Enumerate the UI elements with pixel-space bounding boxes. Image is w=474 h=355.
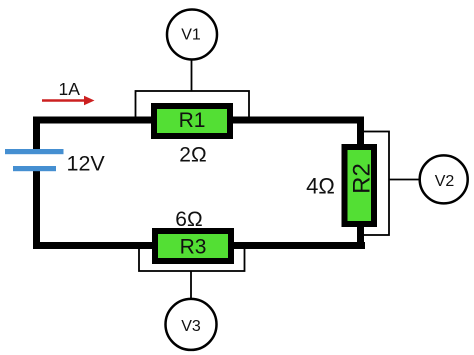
svg-text:6Ω: 6Ω	[175, 208, 202, 231]
battery B1 negative plate	[13, 166, 56, 171]
measurement bracket for R2	[361, 132, 390, 236]
measurement bracket for R3	[139, 246, 245, 271]
voltmeter V3 lead	[190, 271, 192, 299]
voltmeter V2	[420, 155, 468, 203]
svg-text:4Ω: 4Ω	[306, 174, 335, 199]
resistor R2	[342, 144, 378, 227]
wire left vertical (top rail to battery)	[33, 117, 40, 150]
svg-text:2Ω: 2Ω	[179, 144, 206, 167]
resistor R3	[152, 228, 234, 264]
current arrow 1A	[42, 96, 95, 106]
svg-text:V3: V3	[181, 318, 201, 335]
svg-text:V1: V1	[181, 27, 201, 44]
wire right vertical (top rail to R2)	[357, 117, 364, 147]
wire top rail	[33, 117, 364, 124]
voltmeter V1 lead	[191, 60, 193, 91]
wire bottom rail (over bracket)	[33, 242, 365, 249]
svg-text:V2: V2	[435, 173, 455, 190]
svg-text:12V: 12V	[67, 151, 106, 175]
wire left vertical (battery to bottom rail)	[33, 171, 40, 249]
resistor R1	[151, 103, 233, 139]
wire bottom rail	[33, 242, 365, 249]
measurement bracket for R1	[136, 91, 250, 120]
svg-text:1A: 1A	[59, 79, 81, 99]
battery B1 positive plate	[5, 149, 64, 154]
wire right vertical (R2 to bottom rail)	[357, 225, 364, 249]
voltmeter V3	[166, 299, 217, 350]
svg-text:R2: R2	[349, 163, 376, 194]
svg-text:R1: R1	[179, 109, 206, 132]
voltmeter V1	[167, 10, 217, 60]
voltmeter V2 lead	[389, 179, 420, 181]
svg-text:R3: R3	[180, 236, 207, 259]
